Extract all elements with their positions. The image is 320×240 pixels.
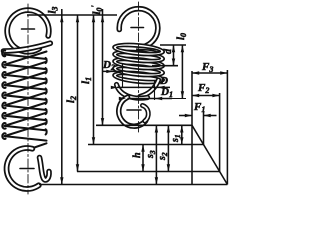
- left spring bottom hook inner tip (J): [40, 158, 50, 181]
- d witness top: [160, 44, 186, 46]
- svg-text:l0: l0: [175, 33, 188, 40]
- dimension s2: [167, 125, 169, 171]
- middle spring top hook (wire: mirrored 2-shape): [119, 9, 158, 50]
- svg-text:d: d: [163, 48, 174, 54]
- force diagram F3 vertical: [226, 70, 228, 185]
- dimension s1: [181, 125, 183, 144]
- arrowheads l1: [92, 15, 95, 22]
- middle spring bottom hook inner tip (J): [143, 106, 149, 122]
- dimension F3: [192, 72, 227, 74]
- arrowheads l3: [60, 15, 63, 22]
- level line l0': [96, 124, 192, 126]
- d witness bottom: [152, 65, 178, 67]
- arrowheads D: [111, 86, 118, 89]
- top reference line: [27, 14, 117, 16]
- arrowheads D1: [119, 97, 126, 100]
- arrowhead D2 (points right at outer edge): [106, 70, 113, 73]
- svg-text:D1: D1: [160, 86, 173, 99]
- dimension l2 vertical: [77, 15, 79, 172]
- middle spring bottom hook center mark: [127, 109, 141, 111]
- dimension l3 vertical: [61, 9, 63, 185]
- middle spring top hook center mark: [131, 27, 144, 29]
- dimension d: [173, 45, 175, 66]
- svg-text:F2: F2: [197, 82, 209, 95]
- svg-text:l3: l3: [48, 7, 60, 14]
- force diagram axis vertical: [191, 71, 193, 185]
- svg-text:l0': l0': [90, 5, 104, 15]
- middle spring lower transition wire right: [140, 80, 159, 97]
- middle spring centerline: [138, 2, 140, 132]
- arrowheads d: [172, 45, 175, 52]
- force diagram F1 vertical: [203, 112, 205, 145]
- svg-text:l2: l2: [65, 96, 78, 103]
- svg-text:F1: F1: [193, 101, 205, 114]
- arrowheads s1: [180, 125, 183, 132]
- left spring bottom hook ring: [7, 148, 39, 189]
- force diagram F2 vertical: [219, 93, 221, 172]
- arrowheads l2: [76, 15, 79, 22]
- dimension l0' vertical: [102, 9, 104, 125]
- left spring top hook tail wire: [4, 43, 51, 51]
- arrowheads s2: [167, 125, 170, 132]
- arrowheads l0: [181, 45, 184, 52]
- dimension D2: [102, 70, 122, 72]
- level line l3 baseline: [39, 184, 227, 186]
- dimension l1 vertical: [93, 15, 95, 145]
- svg-text:h: h: [132, 152, 143, 158]
- svg-text:s1: s1: [170, 134, 182, 143]
- arrowheads F3: [192, 71, 199, 74]
- arrowheads l0': [101, 15, 104, 22]
- dimension D1: [128, 98, 173, 100]
- svg-text:s3: s3: [145, 150, 157, 159]
- middle spring lower transition wire left: [117, 85, 148, 99]
- arrowheads F2: [192, 94, 199, 97]
- dimension h: [142, 145, 144, 172]
- middle spring coils (white-filled stacked rings): [113, 42, 164, 86]
- dimension l0: [181, 45, 183, 99]
- level line l2: [77, 171, 220, 173]
- level line l1: [88, 144, 204, 146]
- middle spring bottom hook ring: [119, 97, 146, 126]
- dimension F2: [192, 95, 220, 97]
- svg-text:F3: F3: [201, 61, 213, 74]
- left spring centerline: [27, 4, 29, 194]
- D witness lines: [122, 64, 124, 88]
- arrowheads s3: [155, 125, 158, 132]
- left spring top hook center mark: [22, 28, 35, 30]
- left spring body coils (X lattice): [2, 50, 47, 149]
- svg-text:s2: s2: [157, 152, 169, 161]
- dimension D: [117, 86, 170, 88]
- force diagram characteristic diagonal: [192, 125, 227, 184]
- dimension s3: [155, 125, 157, 184]
- left spring bottom hook center mark: [20, 168, 34, 170]
- arrowheads h: [141, 145, 144, 152]
- dimension F1 (outside arrows): [179, 115, 192, 117]
- arrowheads F1 outside: [185, 114, 192, 117]
- left spring top hook (wire: 2-shape ring): [7, 10, 49, 52]
- svg-text:l1: l1: [80, 77, 93, 84]
